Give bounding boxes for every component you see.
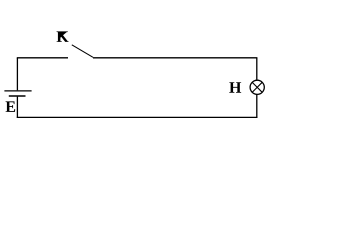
battery E long plate: [4, 90, 31, 92]
wire top right segment: [93, 57, 257, 59]
lamp H circle: [250, 80, 264, 94]
wire bottom: [17, 116, 258, 118]
label E: [6, 101, 16, 111]
wire top left segment: [17, 57, 68, 59]
label K: [57, 31, 69, 41]
label H: [229, 82, 241, 92]
wire right vertical lower: [256, 94, 258, 118]
switch K arm: [72, 45, 93, 58]
wire right vertical upper: [256, 58, 258, 81]
wire left vertical lower: [16, 97, 18, 118]
wire left vertical upper: [16, 58, 18, 91]
battery E short plate: [9, 95, 26, 97]
lamp H cross stroke 1: [252, 82, 262, 92]
lamp H cross stroke 2: [252, 82, 262, 92]
